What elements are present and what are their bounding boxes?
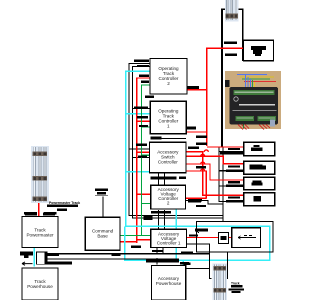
wire: red from AVC1 right to terminal block: [187, 237, 232, 239]
wire: green from OTC2 left terminal down to Command Base: [120, 85, 151, 235]
box: accessory device 1: [244, 142, 275, 155]
wire: black common down right side to accessory terminals: [218, 147, 220, 202]
label: labels near ASC outputs: [188, 147, 206, 169]
box: Accessory Voltage Controller 1: [151, 229, 187, 247]
wire: black branch to accessory box 4: [219, 200, 245, 202]
svg-text:Base: Base: [97, 234, 108, 239]
box: Accessory Powerhouse: [151, 266, 185, 300]
photo: operating track controller device: [225, 71, 281, 129]
svg-text:Powerhouse: Powerhouse: [156, 281, 182, 286]
label: arrow note in terminal block: [196, 229, 208, 232]
box: accessory device 4: [244, 193, 275, 206]
wire: black stubs into ASC: [129, 149, 150, 158]
wire: red track feed into Track Powermaster: [38, 200, 40, 217]
label: powermaster track connection note: [47, 201, 80, 211]
wire: red stub AVC2 right to red riser: [186, 197, 207, 199]
label: labels above accessory stub wires: [228, 148, 240, 199]
wire: black drop AVC2 to AVC1 left: [157, 210, 159, 229]
wire: cyan frame around terminal block: [125, 226, 270, 260]
wire: top track block right rail: [242, 9, 244, 61]
wire: track drop right rail: [226, 252, 228, 279]
label: label near AVC1 right: [189, 229, 208, 237]
wire: red feed from OTC2 left terminal down to AVC1: [137, 78, 151, 243]
svg-text:2: 2: [167, 201, 170, 206]
box: Track Powerhouse: [22, 268, 58, 300]
wire: green stub into ASC: [142, 154, 150, 156]
svg-text:1: 1: [167, 123, 170, 128]
wire: black bundle line A from OTC2 down, turns right above AVC1: [129, 64, 223, 216]
label: terminal labels between ASC and AVC2: [151, 176, 187, 213]
wire: red stub from ASC down to AVC2 feed: [186, 171, 206, 198]
box: Accessory Switch Controller: [150, 142, 187, 173]
label: thick label bar under Track Powermaster: [20, 251, 33, 258]
wire: black branch to accessory box 2: [219, 170, 245, 172]
label: arrow note under Track Powermaster: [22, 262, 33, 265]
wire: red fan from ASC to accessory box 4: [186, 152, 244, 195]
label: right side labels near OTC1 output: [187, 126, 196, 129]
wire: black branch to accessory box 1: [219, 151, 244, 154]
svg-text:Powermaster Track: Powermaster Track: [49, 201, 80, 205]
wire: top track block rectangle left rail: [221, 9, 223, 147]
node: white crossover bridge on bus: [37, 252, 48, 264]
wire: black stubs ASC bottom to AVC2 top: [158, 173, 164, 185]
wire: main black bus upper: [47, 253, 210, 255]
wire: green stub into OTC1: [142, 126, 150, 128]
box: Operating Track Controller 2: [150, 59, 187, 95]
box: terminal block outer: [197, 222, 274, 253]
wire: cyan drop into Accessory Powerhouse: [183, 261, 191, 266]
wire: thick black bus stub bottom left: [45, 262, 72, 265]
node: red hop bumps on fan crossings: [201, 150, 209, 171]
wire: red stub OTC2 right: [187, 89, 207, 91]
wire: cyan link Track Powermaster to Track Powerhouse: [33, 248, 35, 267]
wire: black bundle line B from OTC2 down, turns right above AVC1: [133, 67, 223, 219]
label: labels near command base bottom: [46, 253, 121, 256]
label: thick label bar on lower bus: [146, 259, 179, 262]
box: terminal block inner: [232, 228, 261, 248]
wire: cyan common return from OTC2 down to terminal block frame: [126, 71, 151, 226]
svg-text:Powerhouse: Powerhouse: [27, 284, 53, 289]
wire: black branch to accessory box 3: [219, 185, 245, 187]
svg-text:Powermaster: Powermaster: [26, 233, 54, 238]
wire: main black bus lower: [45, 258, 179, 260]
label: black blob under AVC2 stub: [188, 199, 202, 202]
svg-text:Controller: Controller: [158, 160, 178, 165]
label: power labels at track powermaster top: [24, 212, 57, 215]
label: TMCC serial label above command base: [95, 188, 108, 196]
wire: black drop AVC2 to AVC1 right: [164, 210, 166, 229]
label: labels left of black common: [196, 136, 207, 145]
wire: cyan stub to OTC1: [126, 113, 151, 115]
box: wall power outlet: [244, 40, 274, 61]
photo: O-gauge track section top right: [225, 0, 239, 22]
label: labels near AVC2 outputs: [188, 200, 206, 207]
wire: black bar under OTC1: [151, 137, 187, 140]
wire: cyan stub to ASC bottom: [126, 171, 150, 173]
box: Track Powermaster: [22, 217, 58, 248]
box: Operating Track Controller 1: [150, 101, 186, 134]
label: labels near top track block: [224, 42, 237, 57]
svg-text:Controller 1: Controller 1: [157, 240, 181, 245]
svg-text:Track: Track: [231, 281, 240, 285]
wire: red branch to accessory box 1: [207, 146, 244, 148]
label: labels near AVC1 bottom: [131, 216, 193, 264]
wire: black AVC2 right stub jog to terminal block riser: [186, 200, 223, 204]
label: black tick left of red feed: [25, 213, 55, 215]
wire: red fan from ASC to accessory box 2: [186, 156, 244, 163]
svg-text:2: 2: [167, 81, 170, 86]
wire: red stub from Command Base right to red bundle: [120, 241, 137, 243]
wire: red main feed from power outlet box down: [207, 48, 244, 146]
wire: top track block top rail: [221, 8, 244, 10]
wire: black vertical to lower terminal strip box: [222, 147, 224, 222]
box: Command Base: [85, 217, 120, 250]
label: terminal labels left of OTC1: [134, 96, 154, 128]
wire: black stubs AVC1 bottom to bus: [157, 248, 163, 265]
label: accessory track connection note: [229, 281, 245, 293]
label: terminal labels left of ASC: [136, 144, 147, 158]
wire: black serial drop into Command Base: [102, 197, 104, 218]
label: terminal labels left of OTC2: [134, 59, 149, 82]
box: small connector inside terminal block: [218, 233, 228, 244]
box: Accessory Voltage Controller 2: [151, 185, 186, 209]
wire: red stub into ASC: [137, 151, 150, 153]
wire: cyan drop from AVC2 area to frame bottom: [175, 209, 177, 260]
label: right side labels near OTC2 output: [187, 86, 199, 89]
wire: red stub into AVC2: [137, 193, 151, 195]
photo: O-gauge track section bottom right (accessory track): [212, 264, 227, 300]
wire: green stub to AVC2: [142, 203, 151, 205]
wire: red stub into OTC1: [137, 120, 150, 122]
box: accessory device 3: [244, 177, 275, 190]
wire: black stub into OTC1: [133, 108, 150, 110]
box: accessory device 2: [244, 161, 275, 174]
wire: red stub OTC1 right: [186, 131, 207, 133]
photo: O-gauge track section left (powermaster track connection): [31, 146, 49, 203]
wire: red fan from ASC to accessory box 3: [186, 164, 244, 180]
wire: black link AVC1 right to accessory powerhouse: [186, 244, 212, 279]
